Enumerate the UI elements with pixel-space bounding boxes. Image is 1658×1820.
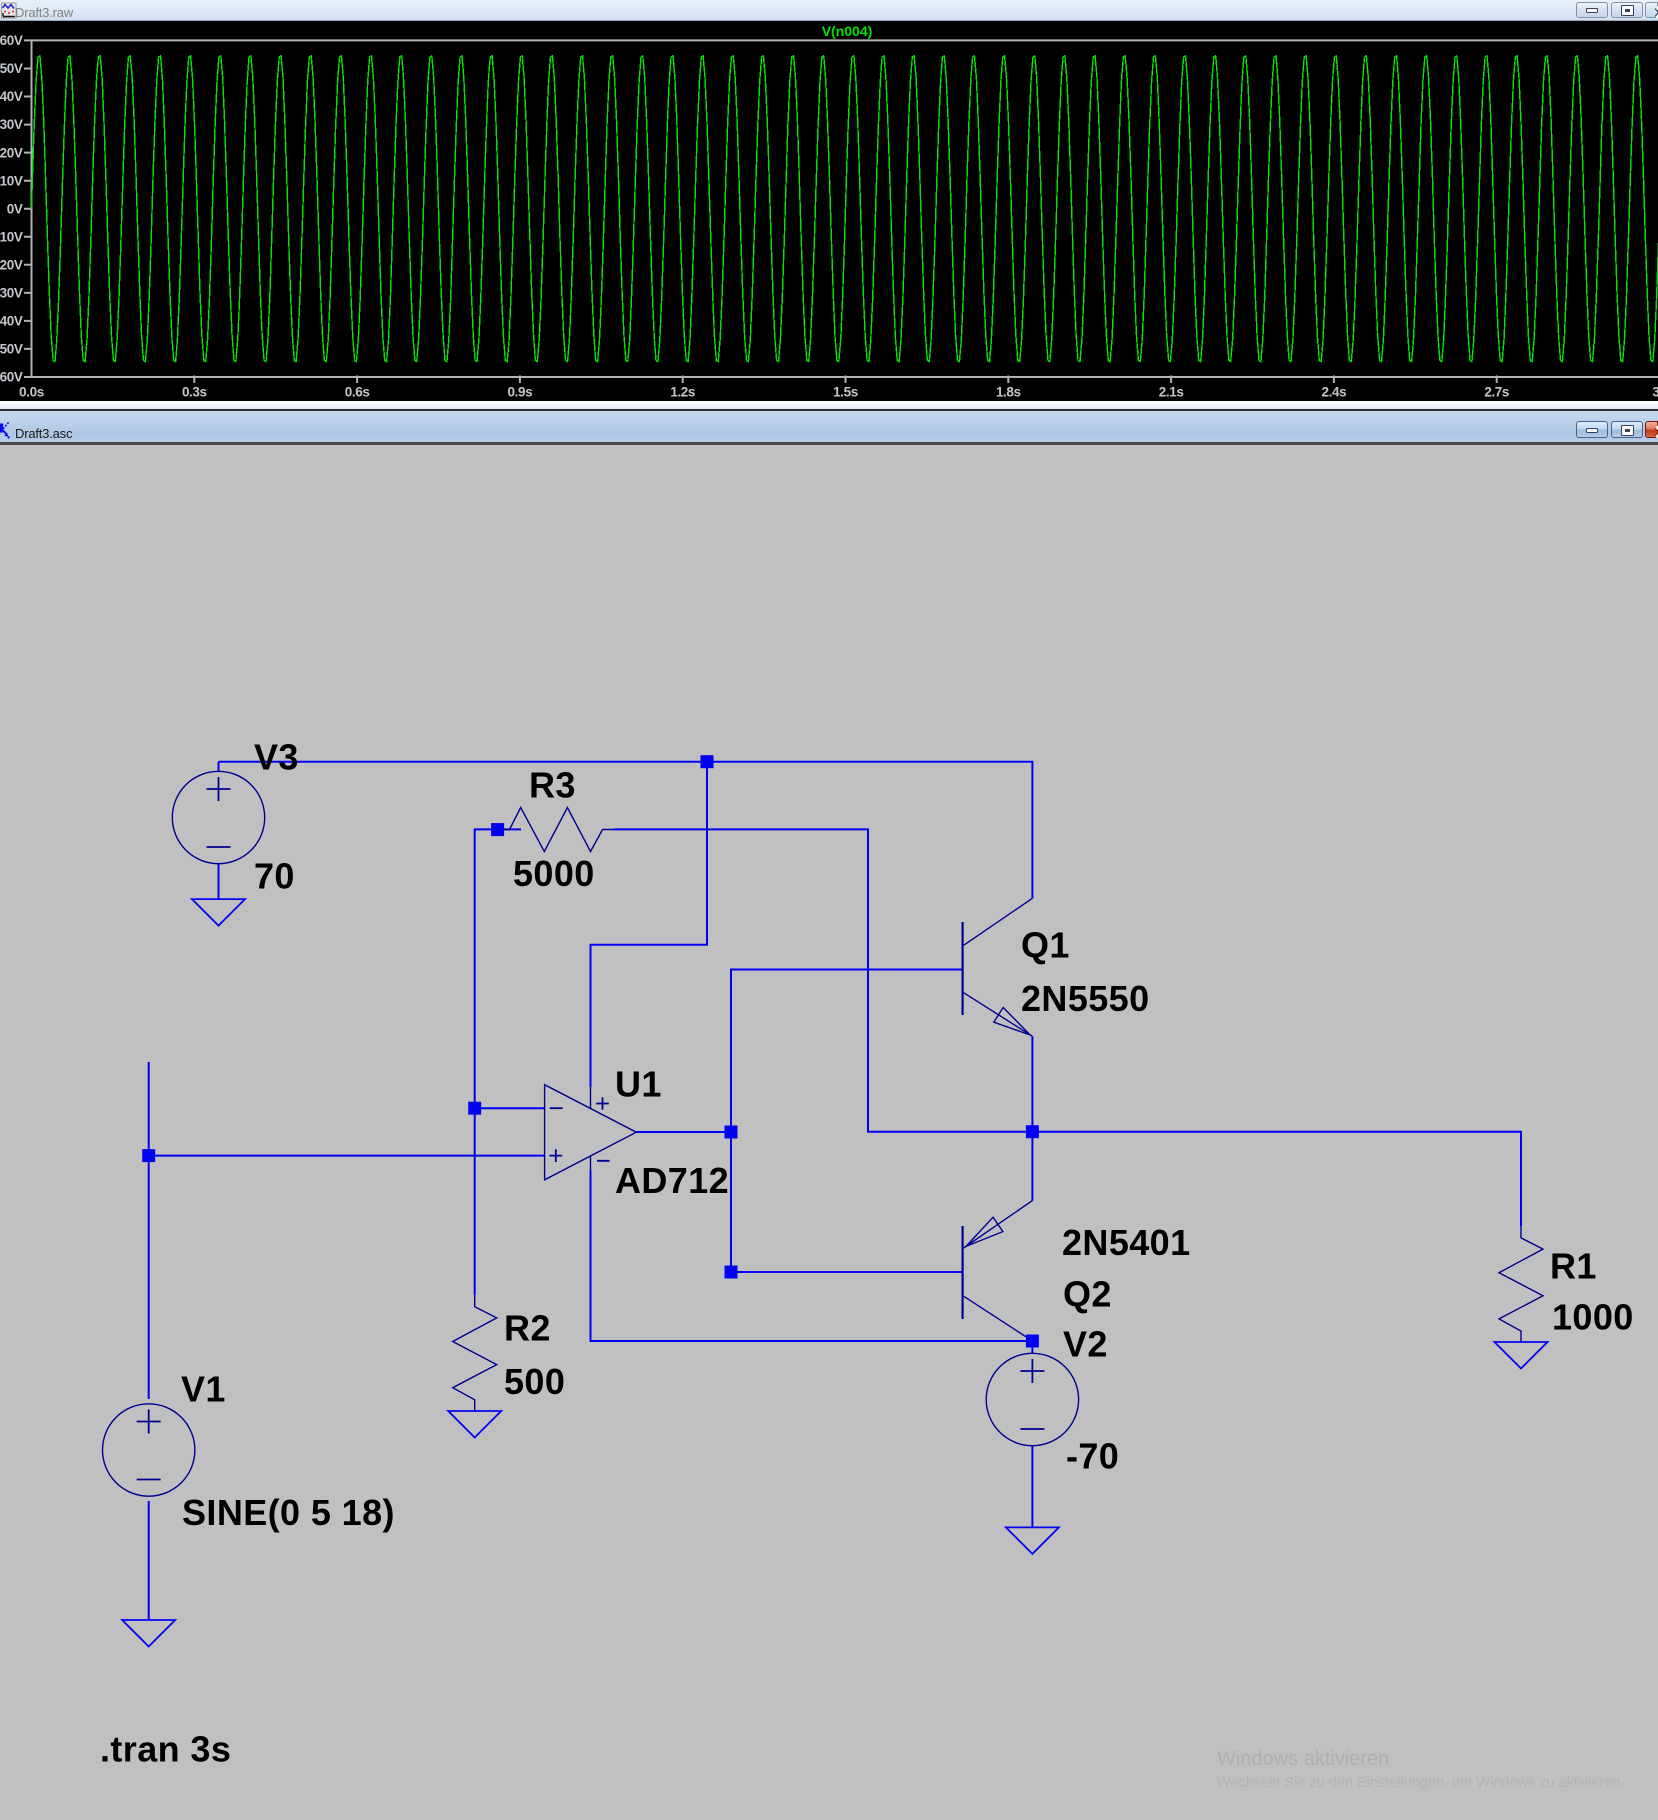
window 2 minimize button (1576, 421, 1608, 438)
waveform viewer window Draft3.raw (0, 0, 1658, 411)
svg-text:1000: 1000 (1552, 1297, 1634, 1338)
ground below R1 (1495, 1342, 1548, 1369)
transistor Q2 2N5401 (963, 1201, 1033, 1341)
resistor R1 (1499, 1226, 1543, 1342)
label V1 (181, 1369, 226, 1410)
svg-text:U1: U1 (615, 1064, 662, 1105)
svg-text:V3: V3 (254, 737, 299, 778)
svg-text:70: 70 (254, 856, 295, 897)
wire R3 right to output node (614, 829, 1033, 1131)
label tran (100, 1729, 231, 1770)
svg-text:500: 500 (504, 1361, 565, 1402)
svg-text:AD712: AD712 (615, 1160, 729, 1201)
svg-text:Q2: Q2 (1063, 1274, 1112, 1315)
junction at V- node (1026, 1335, 1039, 1348)
label V2 (1063, 1324, 1108, 1365)
wire op-amp output (636, 1131, 731, 1133)
ground below V1 (122, 1620, 175, 1647)
svg-text:SINE(0 5 18): SINE(0 5 18) (182, 1492, 395, 1533)
window 1 bottom border (0, 401, 1658, 409)
transistor Q1 2N5550 (963, 898, 1033, 1036)
wire Q1 emitter to node (1031, 1036, 1033, 1131)
wire V1 bottom to ground (148, 1501, 150, 1620)
window 2 icon (0, 420, 16, 440)
junction at Q2 base branch (725, 1266, 738, 1279)
junction at op-amp output (725, 1126, 738, 1139)
window 1 title text (15, 5, 73, 20)
junction at inverting input (468, 1102, 481, 1115)
y axis labels (0, 33, 23, 385)
junction at R3 left terminal (491, 823, 504, 836)
plot frame and axis ticks (24, 40, 1658, 383)
label R3 (529, 765, 576, 806)
label U1 (615, 1064, 662, 1105)
label 1000 (1552, 1297, 1634, 1338)
window 2 close button (red, cut off) (1645, 421, 1658, 438)
label V3 (254, 737, 299, 778)
window 1 close button (cut off) (1645, 2, 1658, 18)
ground below V2 (1006, 1527, 1059, 1554)
x axis labels (19, 385, 1658, 400)
Windows activation watermark (1217, 1748, 1389, 1771)
window 2 restore button (1611, 421, 1643, 438)
label AD712 (615, 1160, 729, 1201)
svg-text:V1: V1 (181, 1369, 226, 1410)
wire V3 bottom stub (218, 863, 220, 899)
svg-text:R3: R3 (529, 765, 576, 806)
title bar window 2 (0, 411, 1658, 442)
trace V(n004) green sine (32, 56, 1658, 362)
wire V2 bottom stub (1031, 1445, 1033, 1527)
schematic window Draft3.asc (0, 411, 1658, 1820)
wire V+ supply branch to op-amp (591, 762, 708, 1087)
voltage source V2 (986, 1353, 1078, 1445)
wire output to Q2 base (731, 1132, 963, 1272)
wire inverting input (475, 1107, 545, 1109)
junction at V+ branch (701, 755, 714, 768)
plot title V(n004) (822, 23, 873, 39)
junction at push-pull output node (1026, 1125, 1039, 1138)
wire top rail V3 to Q1 collector (219, 762, 1033, 899)
svg-text:R2: R2 (504, 1308, 551, 1349)
label Q2 (1063, 1274, 1112, 1315)
wire R3 left to R2 top (475, 829, 521, 1294)
title bar window 1 (0, 0, 1658, 21)
window 2 title text (15, 426, 72, 441)
wire output node to R1 (1032, 1132, 1521, 1226)
voltage source V1 (103, 1404, 195, 1496)
waveform plot area (0, 21, 1658, 401)
svg-text:5000: 5000 (513, 853, 595, 894)
svg-text:2N5401: 2N5401 (1062, 1222, 1191, 1263)
label 500 (504, 1361, 565, 1402)
svg-text:-70: -70 (1066, 1436, 1119, 1477)
label R2 (504, 1308, 551, 1349)
svg-text:.tran 3s: .tran 3s (100, 1729, 231, 1770)
label -70 (1066, 1436, 1119, 1477)
wire V- supply rail (591, 1170, 1033, 1341)
window 1 minimize button (1576, 2, 1608, 18)
label 70 (254, 856, 295, 897)
voltage source V3 (172, 771, 264, 863)
wire V3 top stub (218, 762, 220, 772)
junction at non-inverting input (142, 1149, 155, 1162)
label R1 (1550, 1246, 1597, 1287)
wire V2 top stub (1031, 1341, 1033, 1354)
window 1 icon (1, 2, 17, 19)
label 2N5401 (1062, 1222, 1191, 1263)
wire non-inverting input from V1 (149, 1155, 545, 1157)
svg-text:R1: R1 (1550, 1246, 1597, 1287)
wire output to Q1 base (731, 970, 963, 1133)
ground below R2 (448, 1411, 501, 1438)
svg-text:V2: V2 (1063, 1324, 1108, 1365)
ground below V3 (192, 899, 245, 926)
window 1 restore button (1611, 2, 1643, 18)
svg-text:2N5550: 2N5550 (1021, 978, 1150, 1019)
svg-text:Q1: Q1 (1021, 925, 1070, 966)
label Q1 (1021, 925, 1070, 966)
label SINE (182, 1492, 395, 1533)
op-amp U1 AD712 (545, 1085, 637, 1180)
resistor R2 (453, 1295, 497, 1411)
label 2N5550 (1021, 978, 1150, 1019)
label 5000 (513, 853, 595, 894)
wire node to Q2 emitter (1031, 1132, 1033, 1201)
wire V1 top stub (148, 1062, 150, 1399)
resistor R3 (498, 808, 614, 852)
